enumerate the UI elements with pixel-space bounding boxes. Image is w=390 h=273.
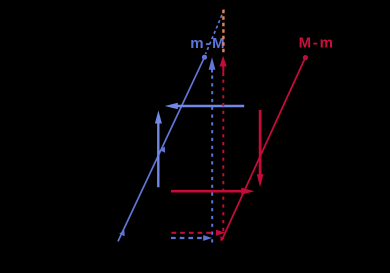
svg-text:m - M: m - M bbox=[190, 35, 224, 52]
svg-text:M - m: M - m bbox=[299, 34, 333, 51]
